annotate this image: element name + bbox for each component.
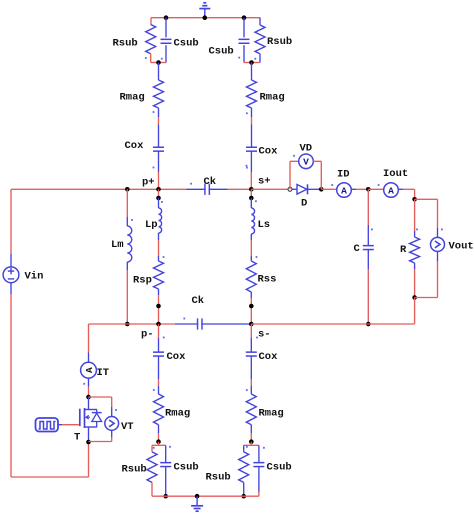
node diode cathode junction: [319, 187, 324, 192]
node top-rail/Csub2 junction: [242, 15, 247, 20]
resistor Rsub (top-right): [254, 18, 265, 63]
inductor Lp: [159, 198, 163, 240]
svg-text:V: V: [303, 157, 309, 168]
wire main rail left (Vin to p+): [11, 188, 187, 190]
wire bottom rail left: [89, 323, 175, 325]
wire VT loop top: [89, 397, 112, 407]
wire s+ to diode: [251, 188, 289, 190]
wire top rail: [151, 17, 260, 19]
label s+: [258, 176, 271, 188]
label Ls: [258, 219, 271, 231]
node s-: [249, 322, 254, 327]
wire R to bottom rail: [414, 298, 416, 325]
wire upper-left chain: [158, 117, 160, 125]
label Lm: [111, 239, 124, 251]
capacitor Cox (upper-left): [153, 125, 164, 173]
svg-text:ID: ID: [337, 169, 350, 181]
label Rmag lower-right: [259, 408, 284, 420]
wire IT to drain: [88, 387, 90, 398]
node s+: [246, 165, 254, 201]
wire Lp to Rsp: [158, 240, 160, 256]
ammeter ID: [337, 183, 352, 198]
label Cox lower-left: [167, 351, 187, 363]
label Cox upper-right: [259, 146, 279, 158]
label D: [301, 198, 307, 210]
resistor Rmag (upper-left): [153, 63, 164, 118]
wire Ck to s+: [228, 188, 252, 190]
label Rsub top-right: [267, 36, 292, 48]
capacitor Ck (bottom): [175, 318, 252, 330]
node top-right pair junction: [249, 60, 254, 65]
svg-text:T: T: [74, 432, 80, 444]
wire Rss to s- rail: [250, 298, 252, 324]
svg-text:Cox: Cox: [125, 140, 145, 152]
svg-text:s+: s+: [258, 176, 271, 188]
svg-text:Lm: Lm: [111, 239, 124, 251]
label Rmag lower-left: [165, 408, 190, 420]
svg-text:VD: VD: [300, 143, 313, 155]
resistor Rmag (upper-right): [246, 63, 257, 118]
voltmeter Vout: [431, 228, 445, 261]
ammeter Iout: [384, 183, 399, 198]
svg-text:Csub: Csub: [209, 46, 234, 58]
node C bottom junction: [366, 322, 371, 327]
gate pulse source VG: [36, 418, 59, 432]
node top-rail/Csub1 junction: [164, 15, 169, 20]
wire Cox to p+ node: [158, 172, 160, 189]
label Rmag upper-left: [120, 92, 145, 104]
resistor Rss: [246, 256, 257, 298]
svg-text:Cox: Cox: [259, 146, 279, 158]
svg-text:Rmag: Rmag: [260, 92, 285, 104]
label Csub top-left: [174, 38, 199, 50]
label Rss: [258, 274, 277, 286]
wire R branch top: [414, 199, 416, 231]
svg-text:Ls: Ls: [258, 219, 271, 231]
capacitor Csub (bottom-left): [160, 445, 171, 496]
label Rmag upper-right: [260, 92, 285, 104]
label Csub bottom-left: [174, 462, 199, 474]
wire Cox to s+ node: [250, 172, 252, 189]
wire R branch bottom: [414, 269, 416, 298]
svg-text:p-: p-: [141, 329, 154, 341]
label ID: [337, 169, 350, 181]
svg-text:IT: IT: [97, 367, 110, 379]
node Rsp bottom: [156, 304, 161, 309]
wire VD loop left: [290, 155, 299, 189]
wire Vout loop top: [415, 199, 438, 228]
ground (bottom): [191, 496, 203, 511]
svg-text:Csub: Csub: [267, 462, 292, 474]
svg-text:Lp: Lp: [145, 219, 158, 231]
node Rsub bottom-right junction: [241, 494, 246, 499]
node Csub bottom-left junction: [163, 494, 168, 499]
label Ck top: [204, 176, 217, 188]
label p-: [141, 329, 154, 341]
capacitor Cox (upper-right): [246, 125, 257, 173]
svg-text:Vout: Vout: [449, 241, 474, 253]
label Cox lower-right: [259, 351, 279, 363]
node lower-left pair junction: [156, 439, 161, 444]
wire to ID: [321, 184, 340, 189]
node drain: [86, 395, 91, 400]
label Csub bottom-right: [267, 462, 292, 474]
node Lm bottom: [125, 322, 130, 327]
label IT: [97, 367, 110, 379]
wire VD loop right: [313, 161, 321, 189]
wire to Iout: [368, 184, 385, 189]
svg-text:A: A: [341, 185, 347, 196]
wire source return up: [88, 442, 90, 477]
diode D: [292, 184, 321, 194]
svg-text:Vin: Vin: [25, 271, 44, 283]
wire diode to ID node: [318, 188, 321, 190]
svg-text:C: C: [354, 243, 361, 255]
wire bottom rail right: [251, 323, 414, 325]
capacitor C: [363, 225, 374, 269]
wire C branch bottom: [367, 269, 369, 324]
label s-: [258, 329, 271, 341]
svg-text:Iout: Iout: [383, 168, 408, 180]
capacitor Csub (top-left): [161, 18, 172, 63]
label Iout: [383, 168, 408, 180]
resistor Rsp: [154, 256, 165, 295]
transistor T (MOSFET with body diode): [80, 397, 102, 442]
node R bottom junction: [412, 295, 417, 300]
svg-text:Ck: Ck: [192, 295, 205, 307]
resistor Rsub (top-left): [145, 18, 156, 63]
wire top-right pair bottom: [244, 62, 260, 64]
svg-text:Csub: Csub: [174, 38, 199, 50]
capacitor Csub (top-right): [238, 18, 249, 63]
resistor R: [410, 229, 420, 270]
svg-text:Rmag: Rmag: [165, 408, 190, 420]
wire Vin top: [10, 189, 12, 254]
svg-text:Rsp: Rsp: [133, 275, 152, 287]
wire Rmag to pair junction left: [158, 433, 160, 442]
resistor Rmag (lower-left): [153, 386, 164, 433]
node Rss bottom: [249, 304, 254, 309]
wire lower-right pair top: [244, 442, 259, 446]
svg-text:A: A: [84, 367, 95, 373]
svg-text:s-: s-: [258, 329, 271, 341]
node source: [86, 440, 91, 445]
wire Ls to Rss: [250, 240, 252, 256]
node R top junction: [412, 197, 417, 202]
wire top-left pair bottom: [151, 62, 166, 64]
label Rsub bottom-left: [122, 464, 147, 476]
wire ground rail: [152, 495, 259, 497]
capacitor Ck (top): [187, 183, 228, 195]
resistor Rsub (bottom-right): [239, 445, 249, 496]
label Rsub bottom-right: [206, 472, 231, 484]
label T: [74, 432, 80, 444]
label Ck bottom: [192, 295, 205, 307]
svg-text:A: A: [388, 185, 394, 196]
wire Vin bottom / left border: [11, 294, 89, 477]
wire Iout to corner: [398, 189, 414, 199]
node p-: [156, 322, 161, 327]
wire Rmag to pair junction right: [250, 433, 252, 442]
voltage source Vin: [3, 254, 19, 294]
label Vin: [25, 271, 44, 283]
wire Lm bottom: [126, 270, 128, 324]
node p+: [156, 187, 161, 200]
label VD: [300, 143, 313, 155]
capacitor Cox (lower-left): [153, 324, 165, 379]
label C: [354, 243, 361, 255]
svg-text:Rmag: Rmag: [259, 408, 284, 420]
wire p- to IT: [88, 324, 90, 353]
resistor Rmag (lower-right): [246, 386, 256, 433]
label VT: [121, 421, 134, 433]
wire Rsp to p- rail: [158, 295, 160, 324]
wire ID to C node: [351, 188, 368, 190]
wire Vout loop bottom: [415, 261, 438, 298]
voltmeter VD: [299, 154, 314, 169]
svg-text:R: R: [400, 244, 407, 256]
svg-text:Rsub: Rsub: [122, 464, 147, 476]
svg-text:Rmag: Rmag: [120, 92, 145, 104]
label R: [400, 244, 407, 256]
label p+: [142, 177, 155, 189]
capacitor Cox (lower-right): [246, 324, 258, 379]
wire gate: [58, 424, 79, 426]
svg-text:Rsub: Rsub: [113, 38, 138, 50]
node ground junction: [195, 494, 200, 499]
svg-text:Ck: Ck: [204, 176, 217, 188]
node top-left pair junction: [156, 60, 161, 65]
label Vout: [449, 241, 474, 253]
resistor Rsub (bottom-left): [147, 445, 157, 496]
capacitor Csub (bottom-right): [253, 445, 264, 496]
voltmeter VT: [105, 407, 119, 437]
label Rsub top-left: [113, 38, 138, 50]
label Cox upper-left: [125, 140, 145, 152]
node C top junction: [366, 187, 371, 192]
node lower-right pair junction: [249, 439, 254, 444]
label Lp: [145, 219, 158, 231]
label Rsp: [133, 275, 152, 287]
svg-text:p+: p+: [142, 177, 155, 189]
svg-text:VT: VT: [121, 421, 134, 433]
wire lower-left chain: [158, 379, 160, 386]
inductor Lm: [127, 189, 133, 270]
ammeter IT: [81, 353, 97, 387]
svg-text:Cox: Cox: [167, 351, 187, 363]
svg-text:Rsub: Rsub: [206, 472, 231, 484]
node Lm top: [125, 187, 130, 192]
wire lower-left pair top: [152, 442, 166, 446]
wire C branch top: [367, 189, 369, 225]
svg-text:Rsub: Rsub: [267, 36, 292, 48]
ground (top): [199, 3, 210, 18]
svg-text:Rss: Rss: [258, 274, 277, 286]
svg-text:D: D: [301, 198, 307, 210]
wire upper-right chain: [251, 117, 253, 125]
node diode anode (open): [288, 187, 292, 191]
inductor Ls: [251, 198, 256, 240]
node top-rail ground junction: [203, 15, 208, 20]
label Csub top-right: [209, 46, 234, 58]
svg-text:Csub: Csub: [174, 462, 199, 474]
svg-text:Cox: Cox: [259, 351, 279, 363]
wire lower-right chain: [250, 379, 252, 386]
wire VT loop bottom: [89, 437, 112, 442]
